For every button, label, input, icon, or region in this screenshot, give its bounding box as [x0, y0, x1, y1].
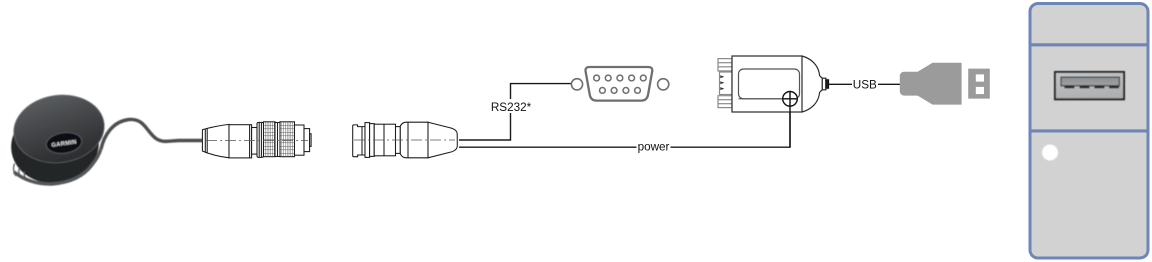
- tapered boot: [428, 122, 457, 158]
- knurled ring B: [280, 122, 295, 157]
- adapter body: [732, 56, 802, 112]
- wire RS232 (connector to DB9): [459, 84, 571, 140]
- neck: [396, 127, 401, 154]
- Garmin badge: [45, 130, 84, 155]
- inner window: [739, 69, 800, 99]
- connector P2 (round connector to adapter cable, line art): [353, 122, 458, 158]
- wire USB (adapter to plug): [829, 83, 901, 85]
- mating nose: [353, 125, 365, 157]
- barrel: [229, 125, 252, 158]
- stub: [820, 76, 823, 92]
- label power: [637, 140, 671, 153]
- groove: [275, 123, 280, 157]
- dome: [802, 56, 820, 112]
- knurl hatching P1: [264, 122, 295, 157]
- ring 1: [365, 123, 370, 158]
- male pins: [720, 75, 724, 90]
- connector P1 (round connector on puck cable, line art): [202, 122, 311, 158]
- boot (strain relief): [202, 124, 229, 157]
- wire from inner window to node: [739, 98, 783, 100]
- svg-text:power: power: [638, 140, 670, 153]
- shell trapezoid: [585, 67, 652, 101]
- pins row 1: [594, 75, 647, 81]
- end cap: [295, 125, 305, 155]
- knurled ring A: [264, 122, 276, 157]
- computer tower: [1030, 4, 1148, 259]
- cable from puck to connector: [101, 119, 203, 149]
- power button: [1042, 145, 1058, 161]
- DB9 male side blocks: [718, 59, 732, 108]
- shoulder body: [400, 122, 428, 158]
- label RS232*: [489, 99, 533, 114]
- center line P2: [354, 139, 455, 141]
- serial-to-USB adapter U1 (line art): [718, 56, 829, 112]
- DB9 serial connector (female, gray outline): [571, 67, 668, 101]
- cable coils on puck base: [14, 164, 27, 180]
- node: power tap symbol on adapter: [782, 91, 797, 147]
- screw hole right: [658, 79, 669, 90]
- GPS receiver (Garmin GPS puck, photo): [5, 89, 109, 190]
- clamp ring: [257, 122, 264, 157]
- wire power (connector to adapter): [459, 108, 790, 148]
- USB port on tower: [1055, 72, 1124, 99]
- svg-text:RS232*: RS232*: [491, 101, 532, 114]
- tower divider 1: [1030, 43, 1148, 46]
- USB plug (gray icon): [900, 63, 990, 105]
- label USB: [852, 78, 878, 92]
- svg-text:USB: USB: [853, 79, 877, 92]
- tower divider 2: [1030, 129, 1148, 132]
- mid section: [374, 124, 395, 156]
- ring 2: [370, 124, 375, 157]
- center line P1: [206, 140, 308, 142]
- pins row 2: [600, 88, 641, 94]
- cable wrap around puck base: [14, 149, 101, 185]
- neck ring: [252, 128, 257, 155]
- screw hole left: [571, 79, 582, 90]
